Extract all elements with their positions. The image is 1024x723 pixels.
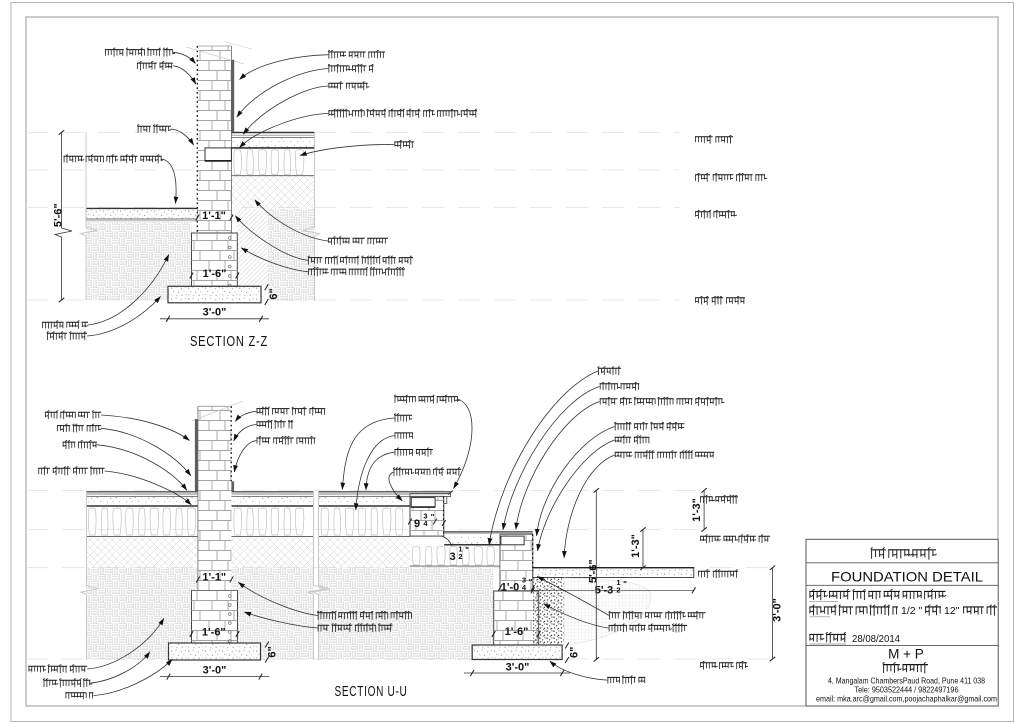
leader to skirting [237, 69, 328, 118]
leader plaster UU [101, 415, 189, 441]
footing brick masonry (Z-Z) [192, 233, 238, 286]
label: 4in plinth band DPC (U-U mid) [393, 468, 461, 470]
svg-text:28/08/2014: 28/08/2014 [852, 633, 900, 645]
label: flagging concrete or brick paving (Z-Z) [64, 155, 162, 157]
label: pit excavation (Z-Z) [42, 321, 88, 323]
label: concealed skirting (U-U) [57, 425, 101, 427]
label: 2 brick wall in 5 layers (Z-Z) [308, 268, 405, 270]
label: client Aniruddha and Sheema Mukherjee [809, 590, 945, 592]
leader to earth fill [255, 200, 328, 241]
svg-text:12": 12" [944, 605, 960, 617]
leader pcc right UU [503, 387, 600, 530]
concrete footing (U-U left) [169, 643, 261, 660]
dimension 5ft6in vertical (Z-Z) [55, 132, 72, 300]
label: architects (devanagari) [883, 664, 928, 666]
leader wall left UU [238, 582, 317, 615]
svg-text:1'-6": 1'-6" [505, 626, 529, 638]
dimension 1ft3in intermediate-ground (U-U) [642, 530, 644, 568]
label: foundation bed (U-U) [65, 692, 93, 694]
exposed face dotted line (Z-Z wall left face) [196, 46, 198, 233]
label: 2 brick wall in 6 layers (U-U left) [318, 624, 393, 626]
soling stones Z-Z [234, 150, 304, 175]
svg-text:": " [465, 546, 469, 555]
leader to wall base [235, 216, 308, 261]
hatch: filled earth right of wall (Z-Z) [231, 176, 314, 209]
dimension 6in concrete depth (Z-Z) [265, 284, 268, 290]
label: mud cement plaster (U-U) [45, 411, 101, 413]
rubble backfill stipple beside footing (U-U) [533, 578, 564, 646]
leader soling mid UU [356, 436, 395, 510]
leader to fascia [171, 129, 194, 145]
svg-text:1'-6": 1'-6" [203, 268, 227, 280]
leader footing left UU [244, 612, 317, 628]
leader 6inPCC UU [550, 661, 608, 680]
cut stone tread with nosing (U-U) [410, 491, 451, 493]
label: scale note part1 [809, 606, 898, 608]
exposed face dots (U-U right wall) [532, 534, 534, 568]
label: soling (U-U right) [598, 367, 621, 369]
leader to plaster [240, 55, 329, 80]
disturbed ground grid blob (U-U) [564, 578, 651, 645]
step masonry block 9.75in (U-U) [410, 496, 444, 536]
brick wall column (U-U right) [500, 534, 533, 591]
svg-text:1'-6": 1'-6" [202, 627, 226, 639]
label: 6in PCC (U-U) [607, 676, 645, 678]
leader groove right UU [537, 427, 615, 536]
label: 3ft excavation level (U-U) [700, 662, 747, 664]
leader to footing [241, 248, 308, 272]
svg-text:6": 6" [268, 288, 280, 299]
dimension 6in (U-U left concrete) [265, 642, 269, 648]
label: 10mm groove pointing (U-U) [256, 408, 325, 410]
svg-text:": " [623, 580, 627, 589]
label: plinth level (U-U) [700, 496, 738, 498]
level line: Z-Z excavation level [26, 299, 680, 301]
plinth band DPC (U-U right wall) [501, 536, 524, 545]
hatch: undisturbed earth left (Z-Z) [86, 222, 192, 300]
dimension 6in (U-U right concrete) [565, 643, 569, 649]
label: 10mm groove pointing (Z-Z) [105, 49, 173, 51]
label: mud cement plaster right (U-U) [256, 437, 315, 439]
label: earth filled from above (U-U) [28, 665, 87, 667]
title block frame [806, 539, 998, 706]
label: intermediate plinth level (U-U) [700, 535, 770, 537]
ground paving slab right of outer wall (U-U) [533, 568, 694, 578]
soling stones left of wall (U-U) [88, 508, 195, 535]
svg-text:3'-0": 3'-0" [203, 307, 227, 319]
floor tile layers (Z-Z) [231, 131, 314, 133]
label: pit excavation (U-U) [43, 679, 90, 681]
svg-text:SECTION U-U: SECTION U-U [335, 684, 408, 700]
leader to plinth band [239, 113, 328, 147]
label: 4in PCC (U-U) [63, 441, 97, 443]
label: screed (U-U) [394, 414, 412, 416]
label: 4in PCC (U-U mid) [394, 449, 432, 451]
label: 4in PCC (U-U right) [600, 383, 640, 385]
dimension 5ft-3.5in ground slab [533, 589, 694, 591]
svg-text:2: 2 [616, 585, 620, 594]
level line: Z-Z ground level [26, 206, 680, 208]
soling stones middle bay (U-U) [321, 508, 403, 535]
leader exposed UU [234, 425, 257, 442]
dimension 5ft6in vertical (U-U) [595, 490, 597, 659]
leader to groove pointing [173, 52, 196, 63]
floor layers left of wall (U-U) [86, 491, 198, 493]
svg-text:5'-6": 5'-6" [587, 559, 599, 583]
course number marks [228, 237, 231, 240]
floor layers right of wall (U-U) [231, 491, 313, 493]
svg-text:5'-3: 5'-3 [595, 585, 614, 597]
leader to soling [300, 145, 394, 156]
svg-text:3: 3 [449, 551, 455, 563]
hatch: filled earth under floors (U-U) [86, 537, 314, 568]
svg-text:": " [431, 513, 435, 522]
leader paving UU [564, 455, 615, 558]
concrete footing (U-U right) [472, 645, 562, 660]
svg-text:6": 6" [568, 647, 580, 658]
label: 3ft excavation level (Z-Z) [695, 297, 745, 299]
label: scale note inch [925, 606, 941, 608]
label: ground level (Z-Z) [695, 211, 735, 213]
brick wall column (Z-Z) [198, 46, 232, 233]
level line: U-U ground level [26, 567, 768, 569]
faint cut diagonal at wall top [186, 47, 244, 64]
svg-text:5'-6": 5'-6" [53, 203, 65, 227]
svg-text:": " [529, 578, 533, 587]
label: ground level (U-U) [698, 570, 738, 572]
level line: Z-Z intermediate plinth level [26, 169, 680, 171]
leader to pcc [243, 86, 328, 134]
svg-text:1'-1": 1'-1" [202, 210, 226, 222]
level line: U-U excavation level [26, 658, 768, 660]
label: earth filled from above (Z-Z) [328, 237, 388, 239]
label: plinth band 4in inside brick front (U-U) [600, 398, 723, 400]
label: exposed brick (U-U) [256, 421, 293, 423]
dimension 9.75in step band [408, 519, 412, 525]
leader screed UU [342, 418, 394, 490]
label: soling (Z-Z) [394, 141, 414, 143]
label: intermediate plinth level (Z-Z) [695, 174, 765, 176]
level line: Z-Z plinth level [26, 131, 680, 133]
label: flagging concrete or brick paving (U-U) [615, 451, 715, 453]
svg-text:6": 6" [266, 646, 278, 657]
svg-text:M + P: M + P [888, 647, 924, 662]
leader soling right UU [489, 371, 598, 545]
leader exposed right UU [538, 440, 615, 551]
svg-text:1'-3": 1'-3" [691, 498, 703, 522]
lower floor layers at intermediate level (U-U) [444, 531, 533, 533]
svg-text:1'-0: 1'-0 [501, 582, 520, 594]
leader band UU [105, 471, 192, 505]
leader groove UU [235, 411, 256, 421]
leader skirting UU [101, 428, 191, 476]
nosing protrusion [444, 496, 447, 503]
flagging concrete / brick paving slab (Z-Z left) [86, 208, 198, 219]
hatch: undisturbed earth right (Z-Z) [268, 209, 315, 301]
leader pcc UU [97, 445, 187, 491]
svg-text:1'-1": 1'-1" [202, 572, 226, 584]
mud cement plaster strip (Z-Z right face) [231, 60, 234, 132]
4in PCC layer (Z-Z) [231, 138, 314, 148]
label: 1.5 brick wall above 6 layers (U-U left) [318, 612, 412, 614]
drawing right edge (Z-Z) with break [303, 132, 320, 301]
leader nosing UU [454, 399, 473, 488]
label: 1.5 brick wall above 6 layers (U-U right) [609, 612, 706, 614]
plaster strip (U-U left face) [195, 419, 198, 491]
leader plaster2 UU [234, 441, 256, 472]
label: scale note part2 [963, 606, 997, 608]
leader wall right UU [537, 576, 609, 615]
label: fascia chick (Z-Z) [138, 125, 172, 127]
floor layers middle bay (U-U) [319, 491, 411, 493]
leader to paving slab [162, 159, 176, 204]
footing brick masonry (U-U left) [192, 591, 238, 644]
label: mud cement plaster (Z-Z) [328, 51, 385, 53]
drawing left edge (U-U) with break [81, 492, 98, 660]
svg-text:3'-0": 3'-0" [506, 662, 530, 674]
level line: U-U plinth level [26, 489, 698, 491]
concealed skirting bar (U-U right face) [231, 481, 234, 491]
svg-text:3'-0": 3'-0" [772, 598, 784, 622]
brick wall column (U-U left) [198, 406, 232, 590]
level line: U-U intermediate plinth level [26, 529, 698, 531]
svg-text:2: 2 [458, 552, 462, 561]
leader to pit excavation [88, 255, 169, 326]
svg-text:SECTION Z-Z: SECTION Z-Z [190, 334, 268, 350]
label: plinth band 4in inside brick outside (Z-Z) [328, 110, 477, 112]
label: exposed brick (U-U right) [615, 436, 650, 438]
label: soling (U-U mid) [394, 432, 413, 434]
svg-text:3'-0": 3'-0" [203, 665, 227, 677]
leader pcc mid UU [366, 452, 394, 490]
label: 2 brick wall in 6 layers (U-U right) [609, 624, 688, 626]
leader bed UU [93, 659, 172, 695]
leader to foundation bed [87, 297, 161, 337]
svg-text:FOUNDATION DETAIL: FOUNDATION DETAIL [831, 570, 983, 585]
leader footing right UU [544, 604, 609, 628]
leader band mid UU [389, 472, 402, 501]
concrete footing block (Z-Z) [168, 286, 261, 303]
label: 4in PCC (Z-Z) [328, 82, 367, 84]
label: working drawings (title) [871, 549, 936, 551]
label: plinth level (Z-Z) [695, 136, 733, 138]
leader to exposed brick [173, 66, 196, 84]
faint cut diagonals at top [192, 401, 243, 421]
plinth band DPC in step (U-U) [411, 498, 435, 508]
label: wall 1.5 brick above 6 layers (Z-Z) [308, 257, 413, 259]
drawing left edge (Z-Z) with break [81, 132, 98, 300]
svg-text:9: 9 [414, 518, 420, 530]
exposed face dots (U-U wall right face) [230, 406, 232, 481]
footing brick masonry (U-U right) [494, 591, 539, 645]
svg-text:email: mka.arc@gmail.com,pooja: email: mka.arc@gmail.com,poojachaphalkar… [816, 694, 997, 704]
leader earthfill UU [87, 618, 164, 669]
plinth band 4in (Z-Z) [205, 148, 231, 161]
label: 4in plinth band DPC (U-U) [38, 467, 104, 469]
label: 10mm groove pointing (U-U right) [615, 423, 685, 425]
soling stones lower floor U-U [412, 547, 494, 565]
dimension 3ft0in ground-excavation vertical (U-U) [772, 568, 774, 659]
floor break lines (U-U) [308, 492, 325, 660]
svg-text:1'-3": 1'-3" [630, 534, 642, 558]
leader plinthband right UU [516, 402, 600, 530]
label: date word [809, 633, 846, 635]
dimension 1ft3in plinth-intermediate (U-U) [703, 490, 705, 529]
label: foundation bed (Z-Z) [47, 332, 87, 334]
label: cut stone nosing (U-U) [394, 396, 457, 398]
leader pit UU [90, 652, 150, 683]
soling stones right of wall (U-U) [234, 508, 304, 535]
svg-text:1/2 ": 1/2 " [901, 605, 923, 617]
label: concealed skirting (Z-Z) [328, 65, 373, 67]
hatch: undisturbed earth (U-U) [86, 568, 314, 660]
hatch: backfill beside footing (Z-Z) [237, 209, 268, 286]
label: exposed brick (Z-Z) [137, 62, 173, 64]
